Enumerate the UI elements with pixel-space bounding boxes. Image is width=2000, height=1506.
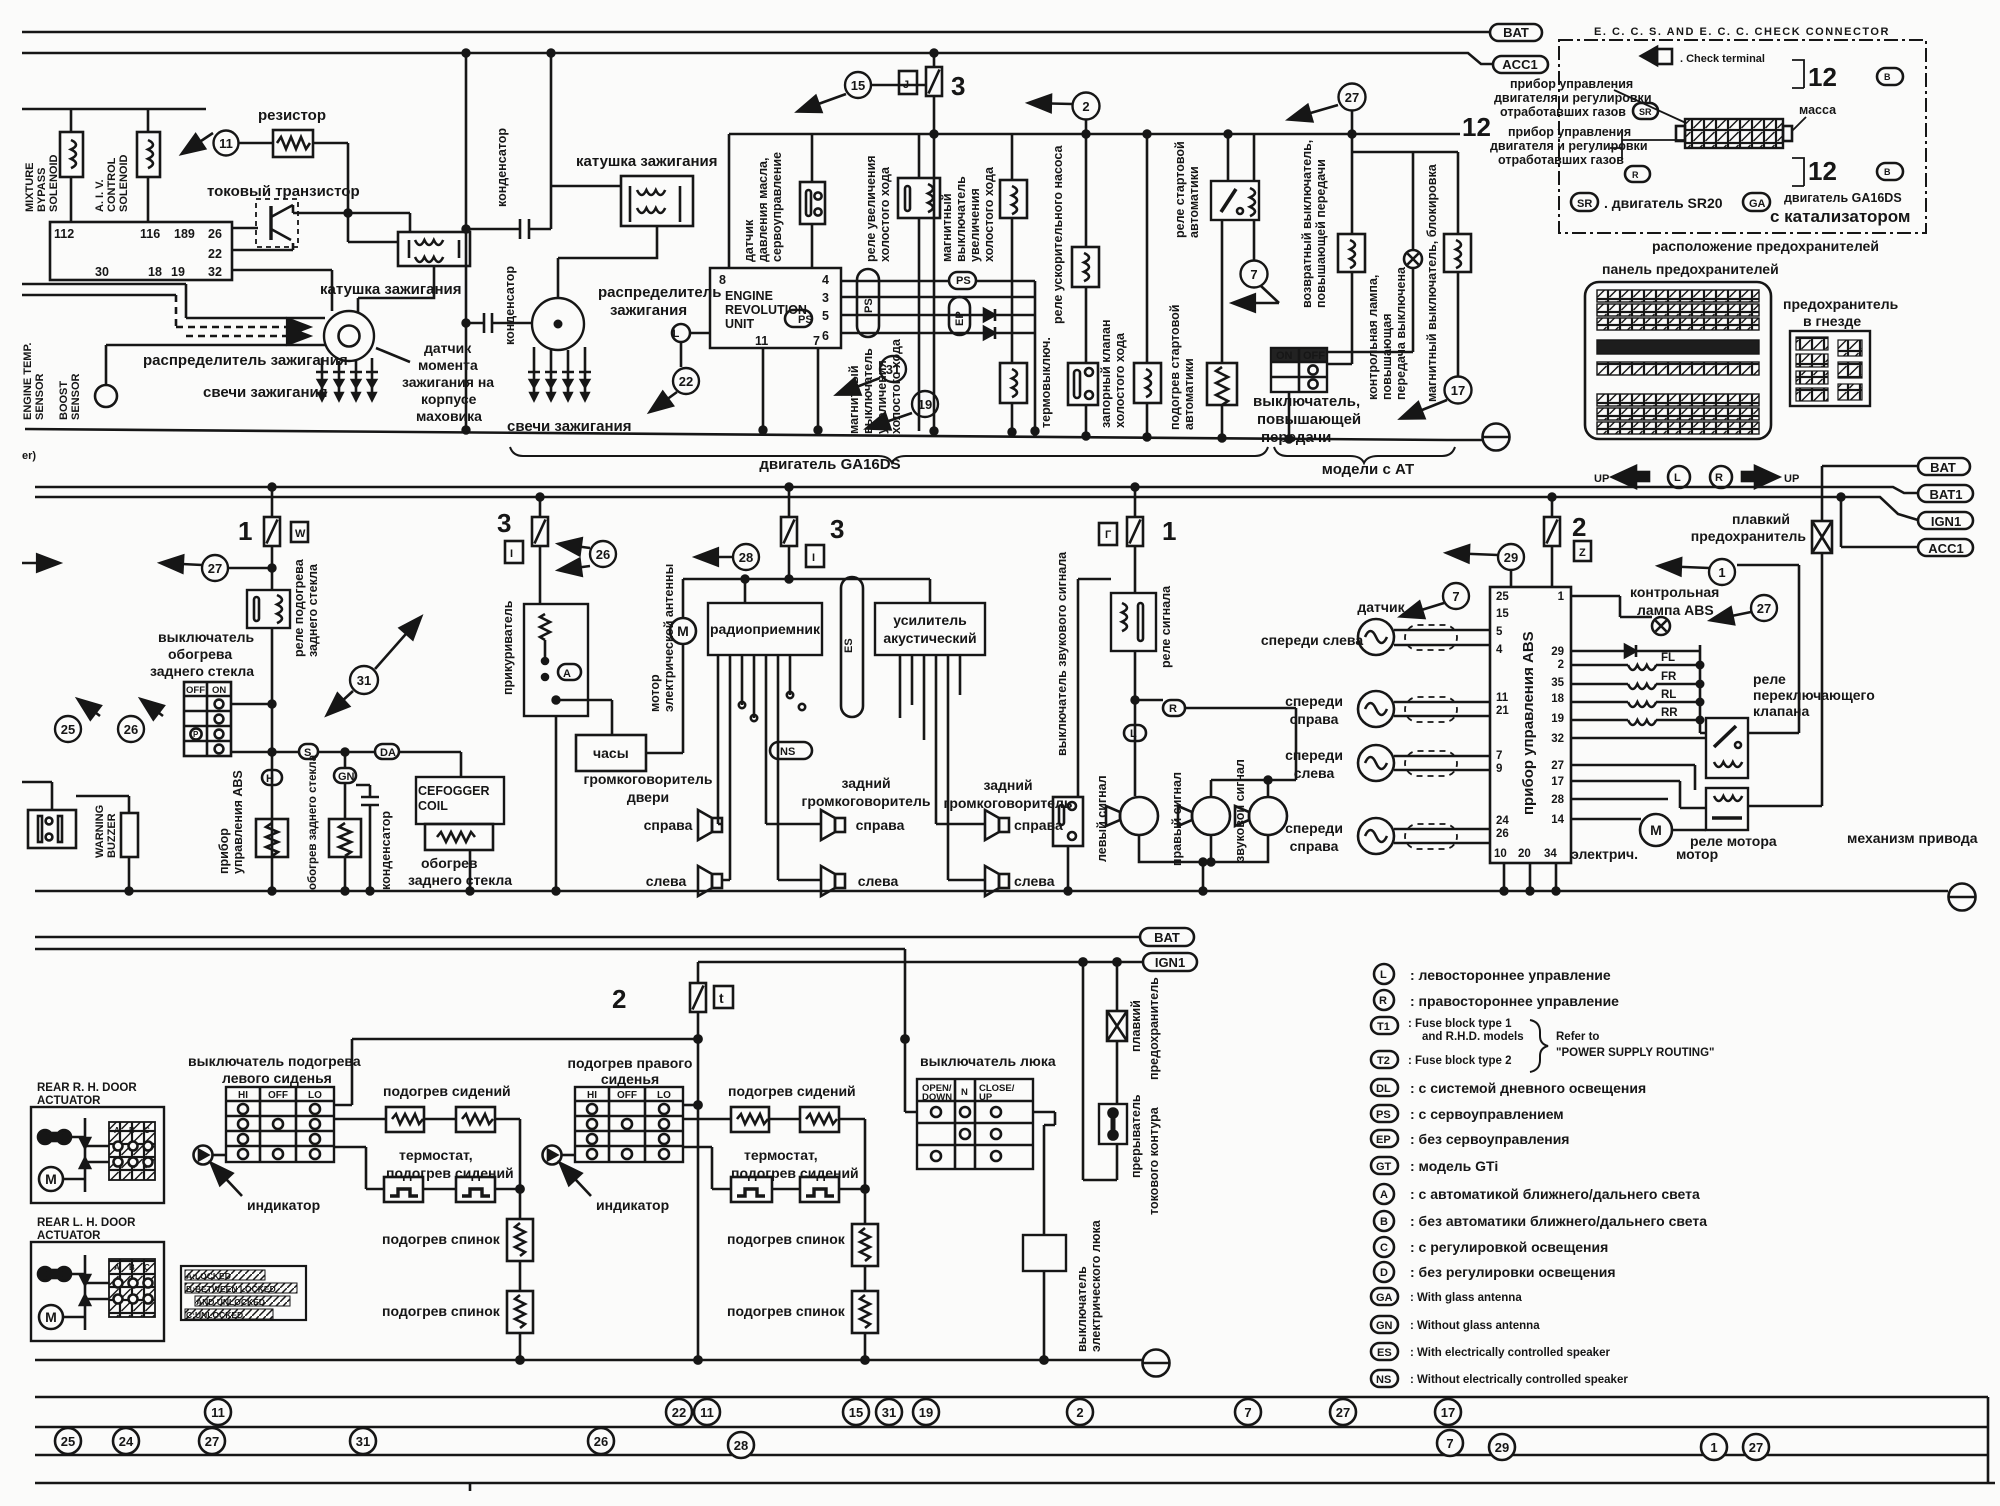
circled ref 31b bus (350, 1428, 376, 1454)
node IGN1 oval bottom (1143, 953, 1197, 971)
svg-text:28: 28 (739, 550, 753, 565)
svg-text:запорный клапан: запорный клапан (1099, 319, 1113, 428)
speaker rear left (821, 866, 845, 896)
svg-text:CEFOGGER: CEFOGGER (418, 784, 490, 798)
ground (top section) (1483, 424, 1510, 451)
ground (bottom) (1143, 1350, 1170, 1377)
wire audio top feed (683, 579, 930, 603)
motor LH (39, 1305, 63, 1329)
fuse F1 defogger (271, 487, 274, 517)
circled index 2 (1073, 93, 1100, 120)
svg-text:: Fuse block type 2: : Fuse block type 2 (1408, 1055, 1512, 1067)
svg-text:27: 27 (1345, 90, 1359, 105)
svg-text:индикатор: индикатор (596, 1197, 669, 1213)
diode column RH (84, 1118, 87, 1192)
overdrive switch ON/OFF (1271, 348, 1327, 392)
svg-text:GA: GA (1376, 1292, 1393, 1304)
fuse F2 ABS (1551, 497, 1554, 517)
node B oval right upper (1877, 68, 1903, 85)
fuse F3 lighter (539, 497, 542, 517)
svg-text:A: A (114, 1126, 120, 1135)
svg-text:холостого хода: холостого хода (878, 166, 892, 262)
svg-text:3: 3 (497, 508, 511, 538)
wire bus ACC top (22, 53, 1493, 64)
brace refer to (1530, 1020, 1548, 1072)
node L (left hand drive) (672, 324, 690, 342)
wire right switch feed (683, 1104, 698, 1107)
wire engine temp sensor lines (22, 284, 186, 295)
svg-text:плавкий: плавкий (1732, 511, 1790, 527)
circled index 19 (912, 391, 938, 417)
rear defogger switch (выключатель обогрева заднего стекла) (184, 682, 231, 756)
svg-text:10: 10 (1494, 848, 1507, 860)
electric motor ABS (1640, 814, 1672, 846)
svg-text:FL: FL (1661, 652, 1675, 664)
svg-text:28: 28 (1551, 794, 1564, 806)
svg-text:передачи: передачи (1261, 429, 1331, 446)
wire horn bottom loop (1139, 835, 1268, 891)
diode column LH (84, 1255, 87, 1330)
brace AT models (1274, 447, 1455, 463)
svg-text:35: 35 (1551, 677, 1564, 689)
svg-text:BAT1: BAT1 (1930, 487, 1963, 502)
svg-text:L: L (673, 328, 680, 340)
relay starting automatics (реле стартовой автоматики) (1228, 134, 1254, 181)
circled ref 25 bus (55, 1428, 81, 1454)
arrow for 26 (142, 700, 163, 716)
svg-text:радиоприемник: радиоприемник (710, 621, 821, 637)
node ES stadium (841, 577, 863, 717)
node BAT (top) (1490, 24, 1542, 41)
horn right (правый сигнал) (1178, 797, 1230, 835)
UP arrow right (1742, 472, 1755, 481)
svg-text:: левостороннее управление: : левостороннее управление (1410, 967, 1611, 983)
distributor 1 (324, 311, 374, 361)
svg-text:Refer to: Refer to (1556, 1031, 1599, 1043)
svg-text:GA: GA (1749, 198, 1766, 210)
svg-text:датчик: датчик (424, 340, 472, 356)
svg-text:12: 12 (1808, 156, 1837, 186)
wire ERU pin5 row with diode (841, 314, 984, 317)
svg-text:Z: Z (1579, 547, 1586, 559)
svg-text:21: 21 (1496, 705, 1509, 717)
warning buzzer connector (28, 810, 76, 848)
seat heater resistor R3 (731, 1107, 769, 1132)
svg-text:индикатор: индикатор (247, 1197, 320, 1213)
node NS legend (1371, 1370, 1398, 1387)
distributor 2 (532, 298, 584, 350)
svg-text:SENSOR: SENSOR (70, 373, 82, 420)
node SR oval block1 (1633, 103, 1658, 119)
svg-text:прерыватель: прерыватель (1129, 1094, 1143, 1178)
svg-text:IGN1: IGN1 (1155, 955, 1185, 970)
seat heater resistor R1 (386, 1107, 424, 1132)
svg-text:ACTUATOR: ACTUATOR (37, 1095, 101, 1107)
svg-text:3: 3 (951, 71, 965, 101)
svg-text:2: 2 (1082, 99, 1089, 114)
circled ref 7 bus (1235, 1399, 1261, 1425)
solenoid mixture bypass (60, 132, 83, 177)
wire radio outputs (718, 655, 821, 880)
svg-text:выключатель,: выключатель, (1253, 393, 1360, 410)
svg-text:J: J (903, 79, 909, 91)
svg-text:11: 11 (219, 136, 233, 151)
svg-text:LO: LO (657, 1090, 671, 1101)
boost sensor (95, 385, 117, 407)
amplifier (усилитель акустический) (875, 603, 985, 655)
svg-text:28: 28 (734, 1438, 748, 1453)
svg-text:I: I (812, 552, 815, 564)
svg-text:26: 26 (596, 547, 610, 562)
connector grid RH (109, 1122, 155, 1180)
svg-text:двери: двери (627, 789, 669, 805)
wire key to grid RH (63, 1137, 109, 1179)
svg-text:передача выключена: передача выключена (1394, 266, 1408, 400)
node BAT1 oval (1918, 485, 1973, 502)
node PS legend (1371, 1105, 1398, 1122)
node PS oval inside ERU (785, 310, 812, 327)
wire resistor out (313, 143, 348, 242)
diode D2 (984, 327, 995, 339)
motor RH (39, 1167, 63, 1191)
circled index 22 (673, 368, 699, 394)
circled ref 11b bus (694, 1399, 720, 1425)
svg-text:CONTROL: CONTROL (106, 157, 118, 212)
svg-text:I: I (510, 548, 513, 560)
wire bus BAT top (22, 31, 1489, 34)
circled index 7b (1443, 583, 1469, 609)
svg-text:19: 19 (1551, 713, 1564, 725)
svg-text:ES: ES (1377, 1347, 1392, 1359)
svg-text:предохранитель: предохранитель (1147, 977, 1161, 1080)
svg-text:катушка зажигания: катушка зажигания (576, 153, 718, 170)
svg-text:A. I. V.: A. I. V. (94, 179, 106, 212)
arrow for 7 (1261, 286, 1279, 303)
svg-text:11: 11 (755, 334, 768, 348)
svg-text:двигатель GA16DS: двигатель GA16DS (759, 456, 900, 473)
fuse row 5 (1597, 362, 1759, 375)
svg-text:двигатель GA16DS: двигатель GA16DS (1784, 191, 1902, 205)
node SR engine oval (1571, 193, 1598, 211)
svg-text:отработавших газов: отработавших газов (1498, 153, 1624, 167)
svg-text:25: 25 (1496, 591, 1509, 603)
svg-text:T1: T1 (1377, 1021, 1390, 1033)
backrest heater resistor left 1 (507, 1219, 533, 1261)
wire ERU pin6 row with diode (841, 332, 984, 335)
svg-text:подогрев правого: подогрев правого (568, 1055, 693, 1071)
svg-text:M: M (1650, 822, 1662, 838)
ECCS diagnostic connector (hatched) (1685, 119, 1783, 148)
svg-text:SR: SR (1639, 107, 1652, 117)
twisted pair 2 (1394, 702, 1490, 716)
svg-text:HI: HI (238, 1090, 248, 1101)
circled index 31 (top) (880, 356, 906, 382)
seat heater resistor R4 (800, 1107, 839, 1132)
svg-text:UP: UP (1784, 473, 1799, 485)
node ACC1 (top) (1493, 56, 1548, 73)
backrest heater resistor right 1 (852, 1224, 878, 1266)
fuse F3 radio (788, 487, 791, 517)
wire switch to relay vertical (231, 703, 272, 706)
svg-text:свечи зажигания: свечи зажигания (203, 384, 328, 401)
svg-text:часы: часы (593, 745, 629, 761)
wire transistor collector out (293, 205, 410, 232)
node A legend (1374, 1184, 1394, 1204)
wheel sensor rear left (1358, 745, 1394, 781)
arrow for 2 (1030, 103, 1072, 104)
svg-text:4: 4 (1496, 644, 1503, 656)
svg-text:выключатель: выключатель (861, 348, 875, 434)
capacitor C1 (конденсатор) (466, 186, 551, 239)
arrow for 22 (651, 392, 677, 411)
svg-text:B: B (1884, 167, 1891, 177)
wire thermostat row left (334, 1147, 520, 1189)
svg-text:29: 29 (1504, 550, 1518, 565)
svg-text:реле сигнала: реле сигнала (1159, 585, 1173, 668)
wire coil2 feed from bus (551, 53, 621, 186)
circled index 28 (733, 544, 759, 570)
circled index 7 (1241, 261, 1268, 288)
svg-text:SENSOR: SENSOR (34, 373, 46, 420)
svg-text:M: M (677, 623, 689, 639)
svg-text:11: 11 (211, 1405, 225, 1420)
svg-text:PS: PS (1376, 1109, 1391, 1121)
wire BAT to fusible link (1822, 466, 1918, 521)
speaker front door right (698, 810, 722, 840)
svg-text:справа: справа (856, 817, 905, 833)
node GA engine oval (1743, 193, 1770, 211)
svg-text:IGN1: IGN1 (1931, 514, 1961, 529)
node NS stadium (770, 742, 812, 759)
wire key to grid LH (63, 1274, 109, 1317)
backrest heater resistor left 2 (507, 1291, 533, 1333)
return switch coil (возвратный выключатель) (1351, 152, 1354, 234)
antenna motor M (670, 618, 696, 644)
svg-text:E. C. C. S. AND E. C. C. CH: E. C. C. S. AND E. C. C. CHECK CONNECTOR (1594, 26, 1890, 38)
circled ref 27b bus (199, 1428, 225, 1454)
svg-text:L: L (1130, 728, 1137, 740)
svg-text:распределитель: распределитель (598, 284, 721, 301)
svg-text:автоматики: автоматики (1187, 166, 1201, 238)
svg-text:DL: DL (1376, 1083, 1391, 1095)
svg-text:подогрев спинок: подогрев спинок (727, 1231, 846, 1247)
svg-text:обогрев заднего стекла: обогрев заднего стекла (307, 754, 319, 890)
svg-text:левый сигнал: левый сигнал (1095, 775, 1109, 862)
magnetic switch lockup coil (1457, 152, 1460, 234)
node ES legend (1371, 1343, 1398, 1360)
wire rail middle bottom (35, 890, 1948, 893)
svg-text:R: R (1632, 170, 1639, 180)
svg-text:1: 1 (1558, 591, 1565, 603)
node junction resistor-collector (345, 210, 352, 217)
wire rail bottom section (35, 1359, 1142, 1362)
svg-text:прибор управления: прибор управления (1510, 77, 1633, 91)
svg-text:предохранитель: предохранитель (1691, 528, 1807, 544)
wire fuse down (697, 1012, 700, 1360)
circled ref 26 bus (588, 1428, 614, 1454)
svg-text:B: B (1884, 72, 1891, 82)
thermo switch (термовыключатель) (1068, 363, 1098, 405)
svg-text:BYPASS: BYPASS (36, 168, 48, 212)
svg-text:31: 31 (356, 1434, 370, 1449)
svg-text:отработавших газов: отработавших газов (1500, 105, 1626, 119)
svg-text:: Without glass antenna: : Without glass antenna (1410, 1320, 1540, 1332)
svg-text:L: L (1380, 969, 1387, 981)
circled ref 24 bus (113, 1428, 139, 1454)
node Z box (1574, 541, 1591, 561)
svg-text:1: 1 (1162, 516, 1176, 546)
svg-text:датчик: датчик (1357, 599, 1405, 615)
node DA oval (375, 744, 399, 759)
svg-text:: модель GTi: : модель GTi (1410, 1158, 1498, 1174)
svg-text:термовыключ.: термовыключ. (1039, 337, 1053, 428)
svg-text:7: 7 (1496, 750, 1502, 762)
svg-text:распределитель зажигания: распределитель зажигания (143, 352, 348, 369)
wire bottom rail engine section (25, 429, 1447, 440)
horn relay (реле сигнала) (1111, 593, 1156, 651)
capacitor C defogger (356, 785, 370, 797)
node I box radio (806, 545, 824, 567)
horn sound (звуковой сигнал) (1235, 797, 1287, 835)
svg-text:27: 27 (1551, 760, 1564, 772)
svg-text:контрольная лампа,: контрольная лампа, (1366, 275, 1380, 400)
horn left (левый сигнал) (1106, 797, 1158, 835)
svg-text:повышающей передачи: повышающей передачи (1314, 159, 1328, 308)
svg-text:27: 27 (1757, 601, 1771, 616)
svg-text:t: t (719, 990, 724, 1006)
wire heater row right (683, 1119, 865, 1224)
svg-text:: без регулировки освещения: : без регулировки освещения (1410, 1264, 1616, 1280)
svg-text:2: 2 (1076, 1405, 1083, 1420)
svg-text:B:BETWEEN LOCKED: B:BETWEEN LOCKED (186, 1284, 276, 1294)
heater starting automatics (подогрев стартовой автоматики) (1221, 220, 1224, 363)
svg-text:OFF: OFF (268, 1090, 288, 1101)
svg-text:11: 11 (700, 1405, 714, 1420)
svg-text:S: S (304, 747, 311, 759)
circled ref 28 bus (728, 1432, 754, 1458)
svg-text:OFF: OFF (1303, 350, 1325, 362)
wire heater row left (334, 1119, 520, 1219)
wire overdrive secondary rail (1351, 110, 1354, 152)
svg-text:R: R (1715, 472, 1723, 484)
svg-text:: с сервоуправлением: : с сервоуправлением (1410, 1106, 1564, 1122)
key solenoid LH (38, 1267, 52, 1281)
svg-text:зажигания на: зажигания на (402, 374, 494, 390)
svg-text:B: B (129, 1126, 135, 1135)
circled ref 27c bus (1743, 1434, 1769, 1460)
svg-text:UP: UP (979, 1092, 993, 1103)
circled ref 31 bus (876, 1399, 902, 1425)
svg-text:: с регулировкой освещения: : с регулировкой освещения (1410, 1239, 1608, 1255)
wire bus BAT bottom (35, 936, 1140, 939)
node IGN1 oval (1918, 512, 1973, 529)
clock (часы) (576, 735, 646, 771)
wire bottom bus 4 (35, 1482, 1995, 1485)
pointer block1 to connector (1614, 90, 1686, 123)
svg-text:момента: момента (418, 357, 478, 373)
thermostat T3 (731, 1177, 772, 1202)
ECU connector block (50, 222, 232, 280)
svg-text:электрической антенны: электрической антенны (662, 564, 676, 712)
relay rear defogger (реле подогрева заднего стекла) (247, 590, 290, 628)
svg-text:слева: слева (1294, 765, 1335, 781)
svg-text:реле подогрева: реле подогрева (292, 558, 306, 657)
node R circle legend (1710, 466, 1732, 488)
svg-text:5: 5 (1496, 626, 1503, 638)
wire sunroof to motor switch box (1033, 1112, 1055, 1235)
indicator lamp left (194, 1146, 213, 1165)
arrow left edge (22, 562, 58, 565)
svg-text:реле: реле (1753, 671, 1786, 687)
svg-text:M: M (45, 1171, 57, 1187)
svg-text:ACC1: ACC1 (1928, 541, 1963, 556)
svg-text:холостого хода: холостого хода (889, 338, 903, 434)
circled ref 22 bus (666, 1399, 692, 1425)
fuse row 2 (1597, 304, 1759, 316)
diode D1 (984, 309, 995, 321)
svg-text:OFF: OFF (186, 685, 205, 696)
svg-text:M: M (45, 1309, 57, 1325)
svg-text:116: 116 (140, 227, 160, 241)
wire bus IGN1 (35, 497, 1918, 520)
wire fuse1 to relay (271, 546, 274, 590)
svg-text:C: C (1380, 1242, 1388, 1254)
svg-text:механизм привода: механизм привода (1847, 830, 1978, 846)
svg-text:A: A (563, 668, 571, 680)
svg-text:27: 27 (208, 561, 222, 576)
svg-text:R: R (1379, 995, 1387, 1007)
svg-text:подогрев стартовой: подогрев стартовой (1168, 305, 1182, 430)
lock legend box (181, 1266, 306, 1320)
circled index 26 (118, 716, 144, 742)
svg-text:2: 2 (612, 984, 626, 1014)
circled index 25 (55, 716, 81, 742)
svg-text:2: 2 (1572, 512, 1586, 542)
svg-text:реле увеличения: реле увеличения (864, 155, 878, 262)
svg-text:реле стартовой: реле стартовой (1173, 141, 1187, 238)
wire sunroof feed (905, 949, 917, 1112)
svg-text:громкоговоритель: громкоговоритель (584, 771, 713, 787)
CEFOGGER COIL box (416, 777, 504, 824)
svg-text:подогрев спинок: подогрев спинок (382, 1303, 501, 1319)
svg-text:26: 26 (208, 227, 222, 241)
ABS warning lamp (1652, 617, 1670, 635)
svg-text:A: A (1380, 1189, 1388, 1201)
node L legend (1374, 964, 1394, 984)
svg-text:22: 22 (672, 1405, 686, 1420)
twisted pair 1 (1394, 630, 1490, 645)
svg-text:er): er) (22, 450, 36, 462)
speaker front door left (698, 866, 722, 896)
wire solenoid feed (22, 109, 206, 132)
seat heater resistor R2 (456, 1107, 495, 1132)
svg-text:автоматики: автоматики (1182, 358, 1196, 430)
ignition coil 2 (621, 176, 693, 226)
svg-text:магнитный: магнитный (940, 193, 954, 262)
wire bus BAT1 (35, 487, 1918, 493)
svg-text:выключатель: выключатель (954, 176, 968, 262)
svg-text:ES: ES (843, 638, 855, 653)
svg-text:в гнезде: в гнезде (1803, 313, 1861, 329)
svg-text:1: 1 (1718, 565, 1725, 580)
wire 11 to resistor (238, 142, 273, 145)
svg-text:справа: справа (1290, 838, 1339, 854)
resistor defogger (329, 819, 361, 857)
wire ERU pin4 row (841, 280, 949, 283)
svg-text:конденсатор: конденсатор (503, 266, 517, 345)
wire coil2 HT to distributor 2 (558, 226, 657, 298)
circled ref 29 bus (1489, 1434, 1515, 1460)
